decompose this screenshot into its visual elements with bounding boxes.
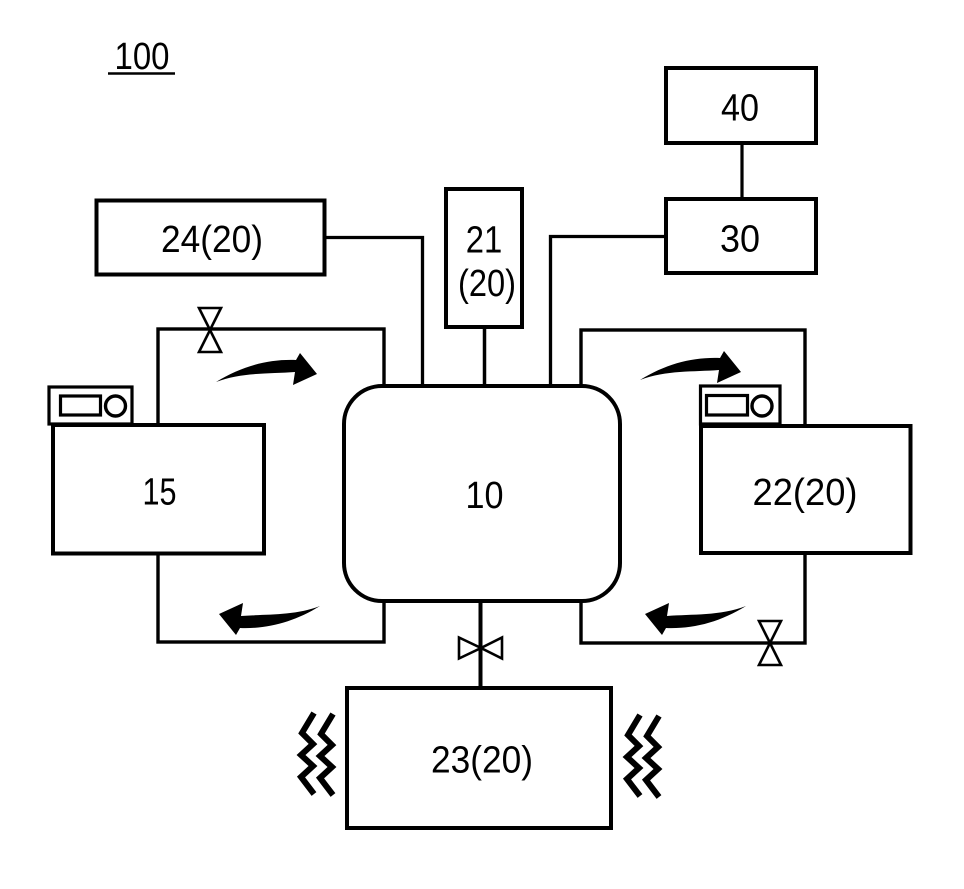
box 21(20): [446, 189, 522, 327]
valve bottom-right: [759, 621, 781, 665]
box 23(20): [347, 688, 611, 828]
svg-text:30: 30: [720, 219, 760, 261]
box 30: [666, 199, 816, 273]
wire 24 to 10: [326, 238, 423, 385]
svg-text:21: 21: [466, 220, 503, 262]
valve top-left: [199, 308, 221, 352]
svg-text:40: 40: [721, 88, 759, 130]
pump device on 22: [701, 386, 781, 424]
pump device on 15: [49, 387, 132, 424]
svg-text:(20): (20): [458, 263, 516, 305]
arrow bottom-left: [219, 603, 320, 635]
svg-text:23(20): 23(20): [431, 740, 533, 782]
valve bottom-center: [459, 638, 502, 659]
svg-text:15: 15: [143, 472, 177, 514]
wire 21 to 10: [483, 329, 487, 384]
right coolant loop pipe: [581, 330, 805, 643]
svg-text:10: 10: [466, 475, 504, 517]
box 24(20): [97, 201, 325, 275]
wire 10 to 23: [479, 603, 483, 687]
wire 30 to 10: [551, 237, 665, 385]
svg-text:24(20): 24(20): [161, 219, 263, 261]
heat zigzags left of 23: [301, 713, 333, 795]
arrow bottom-right: [645, 603, 746, 635]
box 15: [53, 425, 264, 554]
heat zigzags right of 23: [627, 715, 659, 797]
arrow top-right: [640, 351, 741, 383]
wire 40-30: [740, 144, 743, 198]
svg-text:100: 100: [115, 36, 170, 78]
box 10 battery: [344, 386, 620, 601]
box 22(20): [701, 426, 911, 553]
svg-text:22(20): 22(20): [753, 472, 858, 514]
left coolant loop pipe: [158, 329, 384, 642]
arrow top-left: [216, 353, 317, 385]
reference label 100: [108, 36, 175, 78]
box 40: [666, 68, 816, 143]
